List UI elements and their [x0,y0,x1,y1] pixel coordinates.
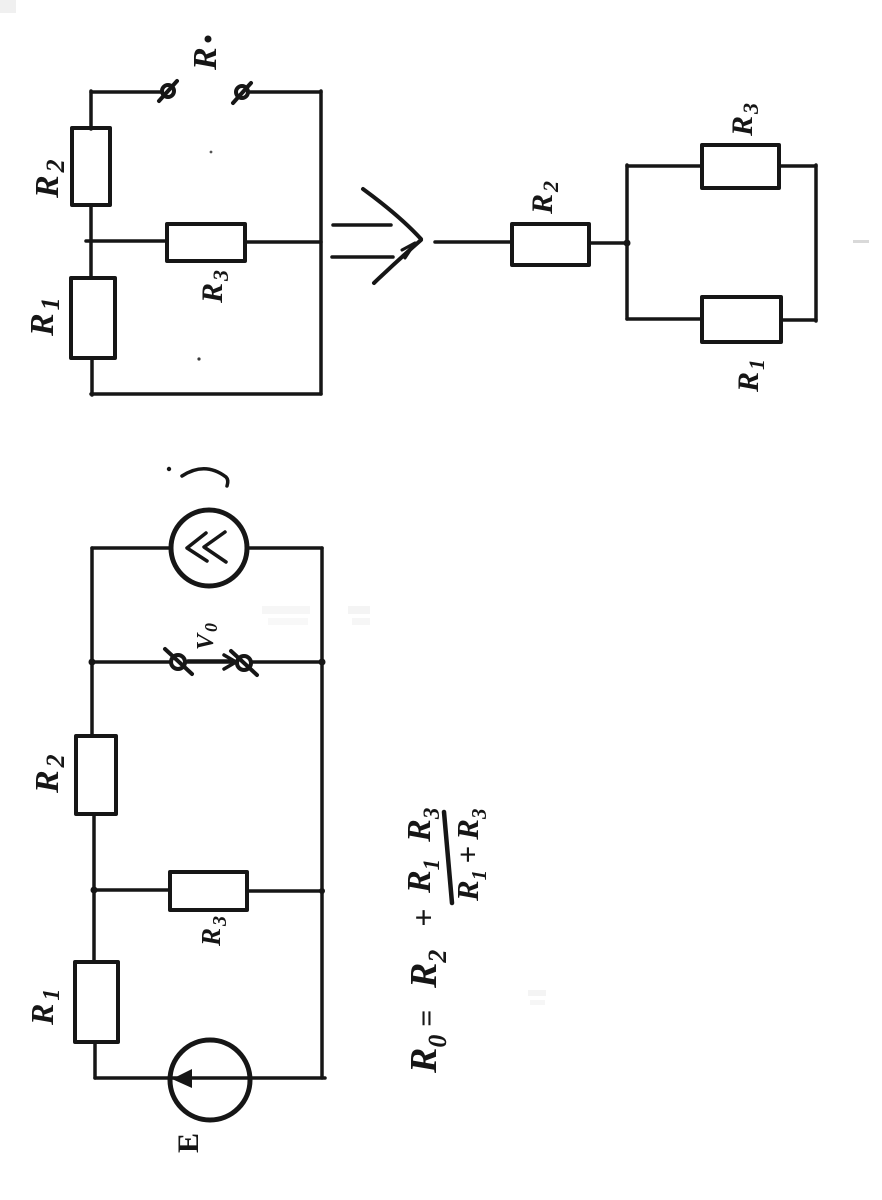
voltage source E circle [170,1040,250,1120]
label R3 [726,103,763,137]
node left [89,659,96,666]
label R1 [24,989,65,1026]
current source chevrons [187,533,207,561]
wire middle left [86,239,167,243]
label R2 [526,181,563,215]
resistor R3 [170,872,247,910]
label j [167,467,228,486]
V0 arrow [188,659,231,663]
resistor R1 [75,962,118,1042]
wire left rail (low) [92,890,96,962]
terminal V0 left [171,655,185,669]
wire left rail (bottom) [93,1042,97,1078]
wire bottom [91,392,321,396]
terminal a (open circle with slash) [162,85,174,97]
wire lead-in [435,240,512,244]
wire top-left segment [91,90,161,94]
resistor R3 [167,224,245,261]
wire top left segment [92,546,171,550]
wire V0 measurement line [92,660,322,664]
arrow shaft upper line [333,223,391,227]
wire left rail bottom [90,358,94,395]
terminal b (open circle with slash) [236,86,248,98]
label R1 [732,359,769,393]
label R2 [29,754,70,794]
arrow chevron lower stroke [374,240,421,283]
terminal V0 right [237,656,251,670]
svg-text:=: = [410,1010,443,1027]
arrow chevron upper stroke [363,189,421,239]
label R3 [196,916,231,947]
label R0 (port label, rotated) [187,36,224,72]
wire left rail (top) [90,548,94,736]
wire right rail [319,91,323,394]
resistor R3 [702,145,779,188]
wire bottom branch left [627,317,702,321]
wire top right segment [247,546,322,550]
arrow shaft lower line [332,255,393,259]
resistor R2 [72,128,110,205]
wire right rail [320,548,324,1078]
wire R2 to junction [589,241,627,245]
wire middle right [245,240,321,244]
resistor R2 [512,224,589,265]
label R2 [29,159,70,199]
resistor R1 [702,297,781,342]
svg-text:E: E [172,1133,205,1153]
resistor R1 [71,278,115,358]
current source J circle [171,510,247,586]
wire left rail (mid) [92,814,96,890]
node right [319,659,326,666]
svg-text:+: + [405,909,441,927]
wire left rail top [89,91,93,129]
label E [172,1133,205,1153]
wire R3 branch right [247,889,322,893]
arrow small barb [402,243,415,258]
node R3 right junction [319,888,325,894]
wire top branch right [779,164,816,168]
E arrowhead [172,1069,192,1088]
label R1 [24,297,65,337]
node R3 junction [91,887,98,894]
node junction [624,240,631,247]
svg-text:R1 + R3: R1 + R3 [450,809,491,902]
wire parallel left rail [625,165,629,319]
wire top-right segment [248,90,321,94]
svg-text:R: R [187,47,224,71]
resistor R2 [76,736,116,814]
wire parallel right rail [814,165,818,321]
wire left rail middle [89,205,93,278]
formula fraction bar [444,812,452,903]
wire top branch left [627,164,702,168]
label V0 [193,623,221,650]
svg-text:R1 R3: R1 R3 [401,808,444,894]
wire bottom branch right [781,318,816,322]
wire R3 branch left [94,888,170,892]
label R3 [196,270,233,304]
wire bottom [95,1076,325,1080]
